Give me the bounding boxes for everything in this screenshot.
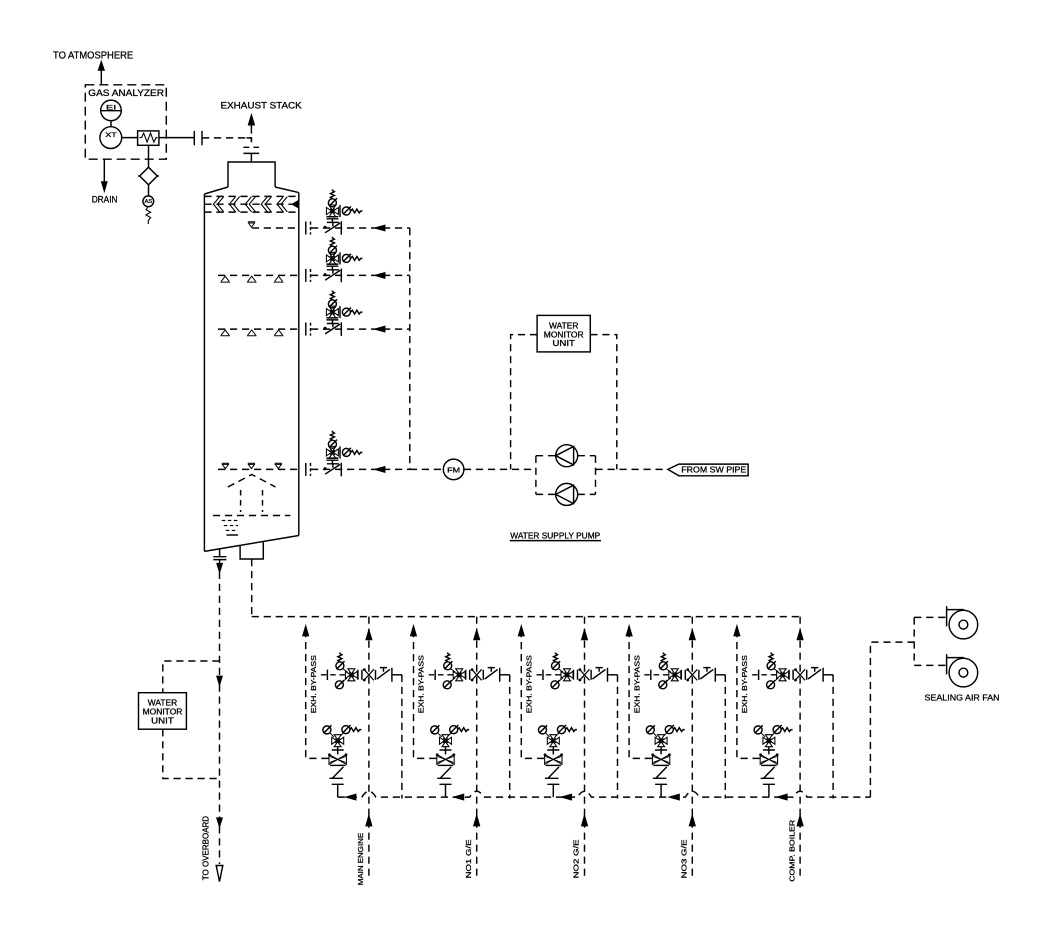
svg-text:EXH. BY-PASS: EXH. BY-PASS <box>525 655 534 713</box>
sample filter box <box>138 131 159 145</box>
svg-text:MONITOR: MONITOR <box>143 708 183 717</box>
water surface line <box>213 515 290 517</box>
wire diamond-AS <box>148 185 150 196</box>
line riser to FM <box>410 468 444 470</box>
bay 5 (COMP. BOILER) valve group <box>734 617 833 880</box>
pump no2 <box>556 483 578 505</box>
spray level 4 line <box>218 468 299 470</box>
air supply zigzag <box>146 207 151 224</box>
level 3 supply line <box>311 328 410 330</box>
svg-text:XT: XT <box>105 132 117 139</box>
svg-text:EXH. BY-PASS: EXH. BY-PASS <box>309 655 318 713</box>
sealing air fan 2 <box>947 654 978 687</box>
svg-text:MONITOR: MONITOR <box>544 330 584 339</box>
drain arrow 2 <box>217 818 222 826</box>
line pumps to flag <box>596 468 668 470</box>
level 1 wall flange <box>306 222 311 235</box>
svg-text:EXHAUST STACK: EXHAUST STACK <box>221 100 303 110</box>
svg-text:NO3 G/E: NO3 G/E <box>680 839 689 878</box>
drain arrow 1 <box>217 676 222 684</box>
overboard outlet symbol <box>216 866 223 882</box>
spray nozzles level4 <box>222 463 282 468</box>
svg-text:SEALING AIR FAN: SEALING AIR FAN <box>925 694 1000 703</box>
label WATER SUPPLY PUMP <box>510 530 601 540</box>
flange break (sample line) <box>194 131 202 145</box>
level 1 valve cluster <box>324 189 363 234</box>
arrow to atmosphere <box>99 62 104 84</box>
svg-text:NO1 G/E: NO1 G/E <box>464 839 473 878</box>
sample line corner <box>247 138 252 141</box>
level 3 valve cluster <box>324 291 363 336</box>
drain line <box>102 159 107 190</box>
svg-text:EXH. BY-PASS: EXH. BY-PASS <box>632 655 641 713</box>
sample line to stack <box>159 137 194 139</box>
water monitor unit (drain) box <box>139 693 187 730</box>
spray level 2 line <box>218 274 299 276</box>
wire filter-diamond <box>148 145 150 167</box>
exhaust gas manifold <box>252 616 800 618</box>
bay 4 (NO3 G/E) valve group <box>626 617 725 880</box>
supply riser <box>409 228 411 469</box>
WMU drain branch top <box>163 661 220 693</box>
bay 3 (NO2 G/E) valve group <box>519 617 618 880</box>
demister band borders <box>204 196 298 212</box>
overboard drain line lower <box>219 826 221 864</box>
level 3 flow arrow <box>376 327 385 332</box>
level 1 flow arrow <box>376 225 385 230</box>
wire XT-filter <box>122 137 138 139</box>
pump loop left <box>535 456 537 495</box>
bay 2 (NO1 G/E) valve group <box>411 617 510 880</box>
spray level 3 line <box>218 328 299 330</box>
sealing air header <box>913 617 915 665</box>
svg-text:TO ATMOSPHERE: TO ATMOSPHERE <box>53 50 133 61</box>
internal outlet guides <box>241 490 263 512</box>
demister chevrons <box>214 197 288 212</box>
scrubber sloped bottom <box>204 536 298 552</box>
level 2 flow arrow <box>376 273 385 278</box>
pump loop bottom branch <box>536 493 596 495</box>
scrubber left wall <box>203 194 205 551</box>
svg-text:EXH. BY-PASS: EXH. BY-PASS <box>417 655 426 713</box>
scrubber right wall <box>298 193 300 536</box>
spray level 1 line <box>252 227 299 229</box>
sealing air fan 1 <box>947 606 978 639</box>
level 4 valve cluster <box>324 431 363 476</box>
dashed sample line <box>202 137 251 139</box>
svg-text:DRAIN: DRAIN <box>92 194 118 204</box>
exhaust stack arrow <box>249 115 255 133</box>
elbow to stack flange <box>250 138 252 145</box>
svg-text:AS: AS <box>145 199 153 205</box>
scrubber shoulder flare <box>204 187 298 194</box>
stack flange break <box>243 147 259 162</box>
instrument AS <box>143 196 154 207</box>
gas analyzer enclosure (dashed box) <box>85 85 166 159</box>
svg-text:EXH. BY-PASS: EXH. BY-PASS <box>740 655 749 713</box>
spray nozzles level3 <box>220 330 283 336</box>
pump no1 <box>556 445 578 467</box>
gas deflector cone (dashed chevron) <box>228 475 276 488</box>
left drain flange <box>213 549 226 560</box>
FROM SW PIPE flag <box>668 464 748 476</box>
water level marks <box>222 521 238 531</box>
outlet duct drop <box>251 559 253 617</box>
wire EI-XT <box>110 121 112 127</box>
WMU right tap <box>590 335 617 470</box>
WMU left tap <box>511 335 537 470</box>
svg-text:COMP. BOILER: COMP. BOILER <box>787 819 796 882</box>
svg-text:UNIT: UNIT <box>552 339 575 348</box>
level 4 flow arrow <box>376 467 385 472</box>
spray nozzle level1 <box>248 222 255 227</box>
sealing air line riser <box>870 642 914 797</box>
svg-text:NO2 G/E: NO2 G/E <box>572 839 581 878</box>
pump loop right <box>595 456 597 495</box>
level 3 wall flange <box>306 323 311 336</box>
left drain arrow <box>217 560 222 572</box>
svg-text:GAS ANALYZER: GAS ANALYZER <box>88 88 164 98</box>
svg-text:WATER SUPPLY PUMP: WATER SUPPLY PUMP <box>510 530 600 540</box>
svg-text:MAIN ENGINE: MAIN ENGINE <box>356 833 365 886</box>
fan 2 stub <box>914 664 946 666</box>
svg-text:FM: FM <box>447 465 460 474</box>
level 2 valve cluster <box>324 237 363 282</box>
water monitor unit (supply) box <box>537 315 590 352</box>
level 2 supply line <box>311 274 410 276</box>
instrument XT <box>100 127 122 149</box>
svg-text:TO OVERBOARD: TO OVERBOARD <box>201 816 210 881</box>
instrument EI <box>101 100 122 121</box>
drain outlet duct <box>240 542 263 559</box>
line FM to pump unit <box>464 468 536 470</box>
pump loop top branch <box>536 455 596 457</box>
level 4 supply line <box>311 468 410 470</box>
demister end arrow <box>293 201 299 207</box>
air filter diamond <box>138 167 159 185</box>
level 1 supply line <box>311 227 410 229</box>
spray nozzles level2 <box>220 276 283 282</box>
svg-text:WATER: WATER <box>148 699 178 708</box>
svg-text:FROM SW PIPE: FROM SW PIPE <box>681 466 746 475</box>
bay 1 (MAIN ENGINE) valve group <box>303 617 402 880</box>
overboard drain line mid <box>219 685 221 819</box>
level 4 wall flange <box>306 463 311 476</box>
svg-text:EI: EI <box>106 104 116 111</box>
svg-text:UNIT: UNIT <box>151 717 174 726</box>
scrubber top duct <box>228 162 275 187</box>
WMU drain branch bottom <box>163 729 220 778</box>
drain return line <box>338 791 871 797</box>
overboard drain line upper <box>219 572 221 681</box>
level 2 wall flange <box>306 269 311 282</box>
flow meter FM <box>443 459 464 480</box>
svg-text:WATER: WATER <box>549 321 579 330</box>
fan 1 stub <box>914 616 946 618</box>
